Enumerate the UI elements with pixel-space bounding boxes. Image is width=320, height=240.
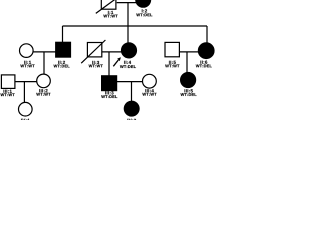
- wire sibship line generation II: [63, 25, 208, 27]
- genotype label WT:DEL for II:6: [196, 65, 212, 68]
- wire marriage line II:3-II:4: [102, 51, 122, 53]
- individual II:2 (affected male, filled square): [56, 42, 71, 57]
- individual III:2 (female, open circle): [37, 74, 51, 88]
- wire drop II:3/II:4 couple to III:3: [108, 52, 110, 76]
- individual II:1 (female, open circle): [20, 44, 34, 58]
- genotype label WT:WT for III:4: [142, 93, 156, 96]
- wire marriage line II:5-II:6: [179, 51, 198, 53]
- wire marriage line I:1-I:2: [117, 2, 137, 4]
- individual III:4 (female, open circle): [143, 74, 157, 88]
- wire drop II:1/II:2 couple to III:2: [43, 52, 45, 74]
- label IV:1: [21, 119, 30, 122]
- genotype label WT:WT for II:1: [20, 65, 34, 68]
- label III:1: [4, 90, 12, 93]
- genotype label WT:WT for II:3: [89, 65, 103, 68]
- label I:1: [108, 11, 113, 14]
- individual III:1 (male, open square): [1, 75, 15, 89]
- genotype label WT:DEL for II:2: [54, 65, 70, 68]
- genotype label WT:DEL for III:3: [101, 95, 117, 98]
- wire marriage line II:1-II:2: [33, 51, 56, 53]
- label III:4: [145, 89, 153, 92]
- genotype label WT:DEL for III:5: [181, 93, 197, 96]
- wire marriage line III:3-III:4: [117, 81, 143, 83]
- individual I:2 (affected female, filled circle): [136, 0, 151, 7]
- individual IV:1 (female, open circle): [19, 102, 33, 116]
- genotype label WT:DEL for II:4: [120, 65, 136, 68]
- individual II:6 (affected female, filled circle): [198, 43, 214, 59]
- wire drop II:5/II:6 couple to III:5: [186, 52, 188, 73]
- label III:5: [185, 89, 193, 92]
- genotype label WT:WT for III:2: [36, 93, 50, 96]
- wire drop III:3/III:4 couple to IV:2: [131, 82, 133, 102]
- wire marriage line III:1-III:2: [15, 81, 37, 83]
- genotype label WT:WT for I:1: [103, 15, 117, 18]
- label I:2: [142, 9, 147, 12]
- wire drop to II:4: [127, 26, 129, 43]
- genotype label WT:WT for III:1: [0, 93, 14, 96]
- individual III:5 (affected female, filled circle): [181, 73, 196, 88]
- wire descent I couple to generation II sibship: [127, 3, 129, 26]
- label II:3: [92, 61, 99, 64]
- individual I:1 (deceased male, square with slash): [96, 0, 116, 13]
- label III:3: [105, 91, 113, 94]
- genotype label WT:WT for II:5: [165, 65, 179, 68]
- label II:4: [124, 61, 131, 64]
- label II:5: [169, 61, 176, 64]
- individual II:4 (affected female proband, filled circle): [122, 43, 137, 58]
- genotype label WT:DEL for I:2: [136, 13, 152, 16]
- wire drop III:1/III:2 couple to IV:1: [23, 82, 25, 103]
- individual II:5 (male, open square): [165, 42, 179, 56]
- wire drop to II:6: [206, 26, 208, 43]
- label II:2: [58, 61, 65, 64]
- individual IV:2 (affected female, filled circle): [124, 101, 139, 116]
- wire drop to II:2: [62, 26, 64, 42]
- individual II:3 (deceased male, square with slash): [81, 40, 105, 63]
- label II:1: [24, 61, 31, 64]
- label II:6: [200, 61, 207, 64]
- proband arrow pointing to II:4: [113, 57, 121, 66]
- label IV:2: [128, 119, 137, 122]
- individual III:3 (affected male, filled square): [102, 76, 117, 91]
- label III:2: [39, 89, 47, 92]
